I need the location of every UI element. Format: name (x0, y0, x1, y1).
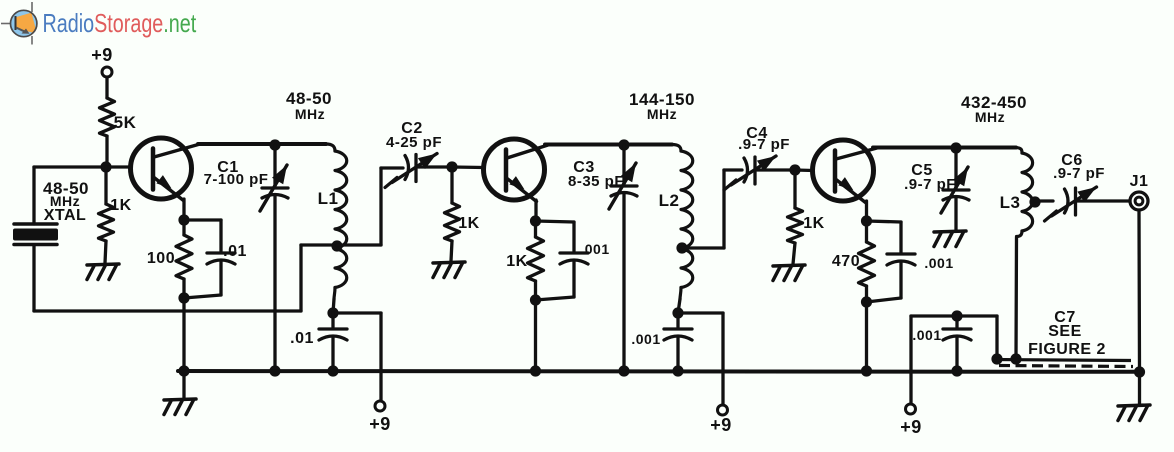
svg-text:+9: +9 (710, 415, 732, 435)
svg-text:MHz: MHz (295, 106, 325, 122)
svg-text:+9: +9 (369, 414, 391, 434)
svg-text:.001: .001 (580, 241, 609, 257)
svg-text:.9-7 pF: .9-7 pF (738, 136, 790, 153)
svg-text:XTAL: XTAL (44, 207, 87, 224)
svg-text:1K: 1K (458, 215, 479, 232)
svg-text:L2: L2 (659, 191, 680, 210)
svg-text:L1: L1 (318, 189, 339, 208)
svg-text:J1: J1 (1130, 173, 1149, 190)
svg-text:4-25 pF: 4-25 pF (386, 134, 442, 151)
svg-text:.01: .01 (290, 330, 314, 347)
svg-text:MHz: MHz (647, 106, 677, 122)
svg-text:SEE: SEE (1048, 323, 1082, 340)
svg-text:1K: 1K (506, 253, 527, 270)
svg-text:.001: .001 (912, 327, 941, 343)
svg-text:1K: 1K (803, 215, 824, 232)
svg-text:FIGURE 2: FIGURE 2 (1028, 341, 1106, 358)
svg-text:.001: .001 (631, 331, 660, 347)
svg-text:.9-7 pF: .9-7 pF (1053, 165, 1105, 182)
svg-text:+9: +9 (900, 417, 922, 437)
svg-text:5K: 5K (114, 113, 137, 132)
svg-text:RadioStorage.net: RadioStorage.net (43, 8, 197, 37)
svg-text:.01: .01 (223, 243, 247, 260)
svg-text:.001: .001 (924, 255, 953, 271)
svg-text:8-35 pF: 8-35 pF (568, 173, 624, 190)
svg-text:MHz: MHz (975, 109, 1005, 125)
svg-text:+9: +9 (91, 45, 113, 65)
svg-text:1K: 1K (110, 197, 131, 214)
svg-text:470: 470 (832, 253, 860, 270)
svg-text:7-100 pF: 7-100 pF (204, 171, 269, 188)
svg-text:.9-7 pF: .9-7 pF (904, 176, 956, 193)
svg-text:100: 100 (147, 250, 175, 267)
svg-text:L3: L3 (1000, 193, 1021, 212)
